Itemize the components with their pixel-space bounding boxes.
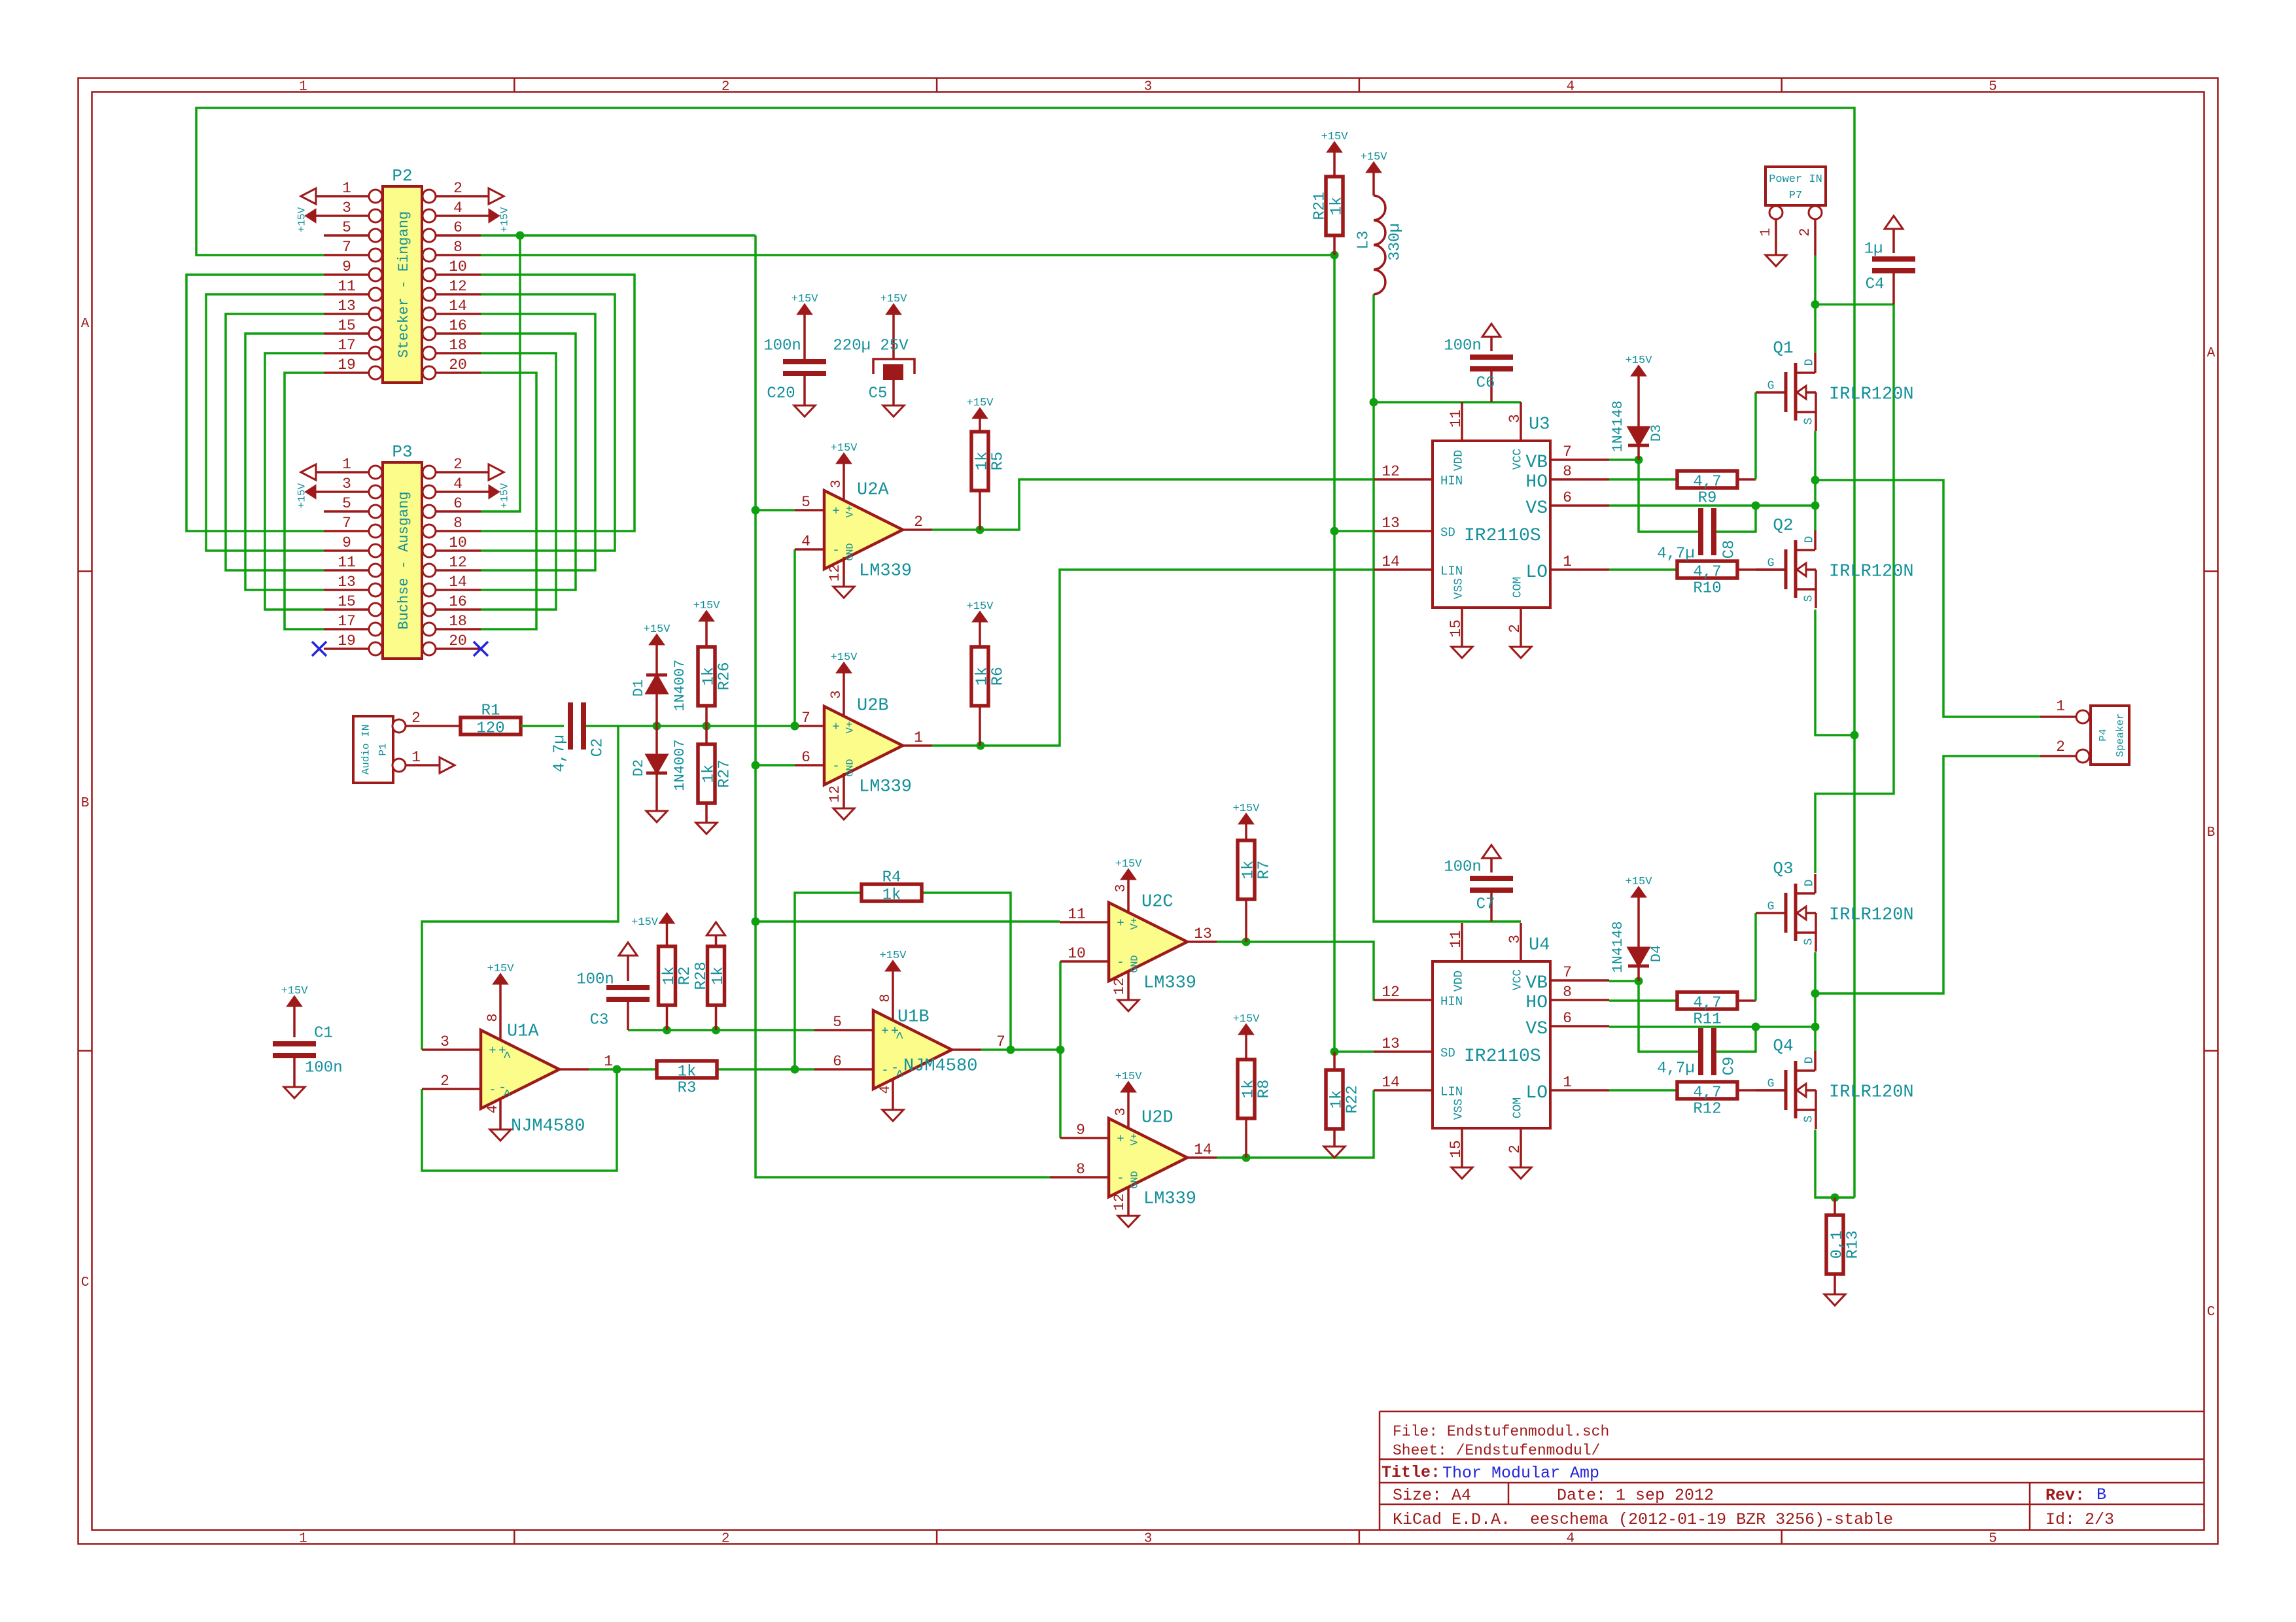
svg-text:+15V: +15V: [880, 293, 908, 305]
svg-text:Q4: Q4: [1773, 1036, 1793, 1056]
svg-text:IR2110S: IR2110S: [1464, 1046, 1541, 1067]
svg-text:12: 12: [1382, 984, 1400, 1001]
svg-text:1N4007: 1N4007: [672, 739, 688, 791]
svg-text:14: 14: [1194, 1141, 1212, 1158]
svg-text:Size: A4: Size: A4: [1393, 1486, 1471, 1505]
svg-text:12: 12: [449, 278, 467, 295]
svg-text:7: 7: [1563, 443, 1572, 460]
resistor R28 1k bias: [693, 922, 727, 1030]
output arrow P3 pin 2: [481, 464, 504, 480]
diode D2 1N4007: [631, 726, 688, 822]
wire bias rail C3/R2/R28 to U1B pin5: [628, 1026, 814, 1035]
svg-text:20: 20: [449, 632, 467, 649]
svg-text:Rev:: Rev:: [2045, 1486, 2085, 1505]
svg-text:D2: D2: [631, 759, 647, 776]
svg-text:1: 1: [342, 456, 351, 473]
svg-text:1k: 1k: [1328, 197, 1346, 216]
svg-text:C: C: [2207, 1305, 2216, 1320]
svg-text:1: 1: [411, 749, 421, 766]
svg-text:+15V: +15V: [967, 397, 994, 409]
svg-text:Title:: Title:: [1382, 1463, 1440, 1482]
svg-text:1k: 1k: [661, 967, 678, 986]
capacitor C3 100n: [576, 942, 650, 1030]
svg-text:1N4148: 1N4148: [1610, 400, 1626, 452]
wire loops P2 left pins to P3 left pins: [186, 275, 324, 629]
svg-text:VS: VS: [1525, 1019, 1548, 1039]
svg-text:R28: R28: [693, 961, 710, 990]
svg-text:HO: HO: [1525, 993, 1548, 1013]
svg-text:1: 1: [299, 79, 307, 94]
svg-text:1k: 1k: [1328, 1090, 1346, 1109]
svg-text:V+: V+: [844, 721, 856, 733]
svg-text:R13: R13: [1844, 1230, 1862, 1258]
inductor L3 330u: [1355, 151, 1404, 294]
wire U3 VS to C8 and Q1 source: [1609, 502, 1820, 532]
U1B input pins: [814, 1014, 1005, 1070]
resistor R27 1k: [696, 726, 733, 834]
svg-text:V+: V+: [844, 505, 856, 517]
diode D4 1N4148: [1610, 876, 1665, 981]
op-amp U2C LM339: [1109, 893, 1196, 993]
svg-text:R27: R27: [716, 759, 733, 787]
svg-text:6: 6: [1563, 1010, 1572, 1027]
svg-text:-: -: [489, 1083, 496, 1097]
svg-text:4: 4: [453, 475, 462, 492]
svg-text:+15V: +15V: [831, 442, 858, 455]
svg-text:1: 1: [604, 1053, 613, 1070]
svg-text:19: 19: [338, 356, 356, 373]
wire U2D output to R8 and U4 LIN: [1217, 1090, 1374, 1162]
ground U2B pin 12: [827, 773, 854, 820]
connector P3 Buchse - Ausgang: [324, 442, 481, 659]
svg-text:2: 2: [722, 79, 730, 94]
svg-text:2: 2: [440, 1073, 449, 1090]
svg-text:U2B: U2B: [857, 697, 889, 716]
svg-text:4,7µ: 4,7µ: [551, 734, 568, 772]
svg-text:14: 14: [449, 574, 467, 591]
svg-text:+15V: +15V: [487, 963, 515, 975]
svg-text:1k: 1k: [678, 1063, 697, 1080]
svg-text:IRLR120N: IRLR120N: [1829, 906, 1914, 925]
svg-text:4,7: 4,7: [1693, 473, 1721, 491]
svg-text:C2: C2: [589, 738, 606, 757]
svg-text:+15V: +15V: [499, 483, 511, 508]
svg-text:+15V: +15V: [1361, 151, 1388, 164]
svg-text:Audio IN: Audio IN: [360, 725, 372, 775]
svg-text:1: 1: [1563, 553, 1572, 570]
svg-text:VCC: VCC: [1511, 449, 1524, 470]
svg-text:11: 11: [1448, 409, 1465, 428]
svg-text:G: G: [1767, 900, 1775, 913]
svg-text:100n: 100n: [576, 971, 614, 988]
svg-text:2: 2: [2056, 738, 2065, 755]
svg-text:2: 2: [1506, 1145, 1523, 1154]
resistor R7 1k pull-up: [1233, 802, 1274, 942]
svg-text:+15V: +15V: [1321, 131, 1349, 143]
wire supply node P7 to C4, Q1 drain and Q3 drain: [1811, 256, 1894, 874]
no-connect X on P3 pin 19: [312, 642, 326, 656]
svg-text:11: 11: [1448, 930, 1465, 948]
svg-text:U4: U4: [1529, 936, 1550, 956]
wire P2 pin8 / R21 / SD net: [481, 251, 1374, 1056]
svg-text:9: 9: [342, 258, 351, 275]
svg-text:6: 6: [801, 749, 810, 766]
svg-text:16: 16: [449, 593, 467, 610]
svg-text:A: A: [81, 317, 90, 332]
svg-text:+15V: +15V: [967, 600, 994, 613]
ground U2C pin 12: [1111, 972, 1139, 1011]
svg-text:2: 2: [1797, 228, 1813, 236]
svg-text:7: 7: [996, 1033, 1005, 1050]
resistor R11 4,7: [1677, 992, 1737, 1028]
svg-text:IR2110S: IR2110S: [1464, 526, 1541, 546]
wire Q1 source / VS node to speaker P4 pin1: [1811, 431, 2041, 717]
svg-text:+15V: +15V: [791, 293, 819, 305]
svg-text:-: -: [1117, 1171, 1124, 1186]
svg-text:VS: VS: [1525, 498, 1548, 519]
svg-text:LM339: LM339: [1143, 1190, 1196, 1209]
svg-text:P4: P4: [2098, 729, 2110, 741]
wire R4 right lead to U1B output: [922, 893, 1015, 1054]
svg-text:1k: 1k: [973, 452, 991, 471]
resistor R4 1k: [861, 869, 922, 904]
IC U4 IR2110S: [1374, 923, 1609, 1179]
power flag +15V P3 pin 3: [296, 483, 324, 508]
svg-text:+15V: +15V: [296, 207, 308, 232]
svg-text:+15V: +15V: [1233, 802, 1261, 815]
connector P2 Stecker - Eingang: [324, 166, 481, 383]
svg-text:8: 8: [453, 239, 462, 256]
svg-text:U1B: U1B: [897, 1008, 930, 1027]
op-amp U2B LM339: [824, 697, 912, 797]
svg-text:SD: SD: [1440, 1046, 1455, 1061]
svg-text:9: 9: [1076, 1122, 1085, 1139]
svg-text:20: 20: [449, 356, 467, 373]
svg-text:IRLR120N: IRLR120N: [1829, 385, 1914, 405]
svg-text:14: 14: [1382, 553, 1400, 570]
svg-text:R22: R22: [1344, 1085, 1361, 1113]
power flag +15V U2B pin 3: [828, 651, 858, 717]
resistor R1 120: [461, 702, 521, 737]
svg-text:1: 1: [2056, 698, 2065, 715]
svg-text:1: 1: [1563, 1074, 1572, 1091]
U2B input pins: [795, 710, 932, 766]
connector P1 Audio IN: [353, 710, 461, 783]
wire U4 VB to D4 and C9: [1609, 977, 1701, 1052]
svg-text:4,7µ: 4,7µ: [1657, 1060, 1695, 1077]
svg-text:2: 2: [453, 456, 462, 473]
svg-text:3: 3: [828, 690, 844, 699]
svg-text:4: 4: [801, 533, 810, 550]
svg-text:V+: V+: [1129, 1133, 1141, 1145]
svg-text:LM339: LM339: [859, 778, 912, 797]
svg-text:13: 13: [1194, 925, 1212, 942]
power flag +15V U2A pin 3: [828, 442, 858, 501]
op-amp U2D LM339: [1109, 1109, 1196, 1209]
capacitor C8 4,7u bootstrap: [1657, 508, 1738, 562]
svg-text:12: 12: [1111, 1194, 1128, 1211]
wire VDD rail L3 to U3 and U4 supply pins: [1370, 294, 1522, 922]
svg-text:LIN: LIN: [1440, 1085, 1463, 1099]
svg-text:12: 12: [449, 554, 467, 571]
svg-text:+15V: +15V: [296, 483, 308, 508]
wire U1A output through R3 to U1B pin6: [589, 893, 862, 1074]
svg-text:LO: LO: [1525, 1083, 1548, 1103]
svg-text:S: S: [1802, 939, 1815, 946]
svg-text:3: 3: [1506, 935, 1523, 944]
svg-text:+15V: +15V: [499, 207, 511, 232]
svg-text:6: 6: [1563, 489, 1572, 506]
svg-text:Thor Modular Amp: Thor Modular Amp: [1442, 1464, 1599, 1483]
input arrow P3 pin 1: [301, 464, 324, 480]
svg-text:C7: C7: [1476, 895, 1495, 913]
resistor R10 4,7: [1677, 561, 1737, 597]
svg-text:D1: D1: [631, 680, 647, 697]
svg-text:7: 7: [342, 239, 351, 256]
svg-text:100n: 100n: [1444, 858, 1482, 876]
svg-text:4: 4: [453, 199, 462, 216]
svg-text:+15V: +15V: [880, 950, 907, 962]
svg-text:1k: 1k: [1240, 861, 1257, 880]
U2D input pins: [1050, 1122, 1217, 1178]
svg-text:Speaker: Speaker: [2115, 713, 2127, 757]
svg-text:C1: C1: [314, 1024, 333, 1042]
svg-text:4,7: 4,7: [1693, 1084, 1721, 1101]
svg-text:+: +: [832, 504, 839, 519]
wire P2 pin7 to top rail and power return rail to Q2/Q4 sources: [196, 108, 1859, 1198]
svg-text:1µ: 1µ: [1864, 240, 1883, 258]
capacitor C5 220u 25V polarized: [833, 293, 914, 417]
svg-text:Q3: Q3: [1773, 859, 1793, 878]
svg-text:GND: GND: [1129, 955, 1140, 973]
svg-text:S: S: [1802, 418, 1815, 425]
svg-text:3: 3: [1144, 1531, 1153, 1546]
no-connect X on P3 pin 20: [474, 642, 488, 656]
svg-text:G: G: [1767, 557, 1775, 570]
svg-text:+15V: +15V: [1626, 354, 1653, 367]
svg-text:6: 6: [453, 495, 462, 512]
svg-text:P2: P2: [392, 166, 412, 186]
svg-text:12: 12: [827, 785, 843, 802]
svg-text:Date: 1 sep 2012: Date: 1 sep 2012: [1557, 1486, 1714, 1505]
wire Q3 source to speaker P4 pin2 and Q4 drain: [1811, 756, 2041, 1052]
svg-text:8: 8: [485, 1013, 501, 1022]
svg-text:1k: 1k: [973, 667, 991, 686]
svg-text:+15V: +15V: [631, 916, 659, 929]
svg-text:Q2: Q2: [1773, 515, 1793, 535]
transistor Q1 IRLR120N: [1756, 338, 1914, 431]
wire Q2 source to power return rail: [1815, 610, 1854, 735]
svg-text:10: 10: [1068, 945, 1086, 962]
svg-text:5: 5: [833, 1014, 842, 1031]
svg-text:12: 12: [827, 564, 843, 581]
svg-text:2: 2: [914, 513, 923, 530]
svg-text:13: 13: [1382, 1035, 1400, 1052]
svg-text:U2C: U2C: [1141, 893, 1174, 912]
power flag +15V U1B pin 8: [877, 950, 907, 1020]
transistor Q2 IRLR120N: [1756, 515, 1914, 608]
wire U2A output to R5 and U3 HIN: [932, 479, 1374, 534]
svg-text:SD: SD: [1440, 526, 1455, 540]
svg-text:+15V: +15V: [693, 600, 721, 612]
resistor R3 1k: [657, 1061, 717, 1097]
svg-text:220µ 25V: 220µ 25V: [833, 337, 909, 354]
wire U2B output to R6 and U3 LIN: [932, 570, 1374, 750]
svg-text:1N4007: 1N4007: [672, 659, 688, 711]
svg-text:2: 2: [722, 1531, 730, 1546]
svg-text:D: D: [1803, 1057, 1816, 1064]
svg-text:10: 10: [449, 534, 467, 551]
resistor R2 1k bias: [631, 914, 694, 1030]
title block: [1380, 1411, 2204, 1530]
svg-text:-: -: [832, 544, 839, 558]
wire audio input node C2/D1/D2/R26/R27 to U2B pin7 and U1A pin3: [422, 549, 799, 1050]
svg-text:8: 8: [453, 515, 462, 532]
wire U3 HO through R9 to Q1 gate: [1609, 392, 1756, 479]
ground U2A pin 12: [827, 557, 854, 598]
svg-text:1k: 1k: [700, 765, 718, 784]
svg-text:P7: P7: [1789, 190, 1802, 202]
svg-text:+15V: +15V: [831, 651, 858, 664]
resistor R8 1k pull-up: [1233, 1013, 1274, 1158]
svg-text:3: 3: [1113, 1107, 1129, 1116]
capacitor C4 1u: [1864, 216, 1915, 305]
svg-text:+15V: +15V: [644, 623, 671, 636]
svg-text:+15V: +15V: [1115, 1071, 1143, 1083]
svg-text:17: 17: [338, 337, 356, 354]
svg-text:R6: R6: [989, 667, 1007, 686]
svg-text:VSS: VSS: [1452, 1099, 1465, 1120]
output arrow P2 pin 2: [481, 188, 504, 204]
svg-text:19: 19: [338, 632, 356, 649]
svg-text:P3: P3: [392, 442, 412, 462]
svg-text:VSS: VSS: [1452, 578, 1465, 599]
ground U1B pin 4: [877, 1079, 903, 1121]
svg-text:R5: R5: [989, 452, 1007, 471]
svg-text:L3: L3: [1355, 231, 1372, 250]
svg-text:B: B: [81, 796, 90, 811]
svg-text:15: 15: [338, 593, 356, 610]
svg-text:U2A: U2A: [857, 481, 889, 500]
wire U4 LO through R12 to Q4 gate: [1609, 1089, 1786, 1092]
svg-text:+: +: [1117, 1132, 1124, 1147]
svg-text:2: 2: [453, 180, 462, 197]
svg-text:S: S: [1802, 1116, 1815, 1123]
svg-text:VB: VB: [1525, 973, 1548, 993]
svg-text:R3: R3: [678, 1079, 697, 1097]
connector P4 Speaker: [2040, 698, 2129, 765]
svg-text:3: 3: [1113, 884, 1129, 892]
svg-text:G: G: [1767, 1077, 1775, 1090]
svg-text:6: 6: [453, 219, 462, 236]
op-amp U1B NJM4580: [873, 1008, 977, 1089]
capacitor C7 100n: [1444, 845, 1513, 922]
svg-text:5: 5: [801, 494, 810, 511]
svg-text:U2D: U2D: [1141, 1109, 1174, 1128]
resistor R26 1k: [693, 600, 734, 726]
svg-text:V+: V+: [1129, 917, 1141, 929]
svg-text:+15V: +15V: [281, 985, 309, 997]
IC U3 IR2110S: [1374, 402, 1609, 658]
svg-text:330µ: 330µ: [1386, 223, 1404, 261]
svg-text:D: D: [1803, 880, 1816, 887]
svg-text:-: -: [832, 759, 839, 774]
U2A input pins: [795, 494, 932, 550]
svg-text:+15V: +15V: [1115, 858, 1143, 871]
svg-text:3: 3: [1506, 414, 1523, 423]
svg-text:+15V: +15V: [1233, 1013, 1261, 1026]
svg-text:18: 18: [449, 337, 467, 354]
svg-text:8: 8: [1076, 1161, 1085, 1178]
svg-text:NJM4580: NJM4580: [903, 1057, 977, 1077]
svg-text:R1: R1: [481, 702, 500, 719]
svg-text:P1: P1: [377, 743, 389, 755]
svg-text:GND: GND: [844, 543, 856, 561]
svg-text:C3: C3: [590, 1011, 609, 1029]
svg-text:100n: 100n: [305, 1059, 343, 1077]
svg-text:D3: D3: [1648, 424, 1665, 441]
svg-text:3: 3: [342, 475, 351, 492]
power flag +15V P2 pin 3: [296, 207, 324, 232]
svg-text:+: +: [489, 1044, 496, 1058]
resistor R13 0,1 current sense: [1824, 1198, 1862, 1305]
svg-text:LO: LO: [1525, 562, 1548, 583]
svg-text:15: 15: [1448, 619, 1465, 638]
svg-text:1N4148: 1N4148: [1610, 921, 1626, 973]
svg-text:7: 7: [801, 710, 810, 727]
svg-text:3: 3: [342, 199, 351, 216]
op-amp U1A NJM4580: [481, 1022, 585, 1137]
power flag +15V U1A pin 8: [485, 963, 514, 1040]
svg-text:D: D: [1803, 359, 1816, 366]
svg-text:-: -: [881, 1063, 888, 1078]
svg-text:R10: R10: [1693, 579, 1721, 597]
output arrow P1 pin 1: [440, 757, 455, 773]
diode D3 1N4148: [1610, 354, 1665, 460]
svg-text:+15V: +15V: [1626, 876, 1653, 888]
svg-text:7: 7: [342, 515, 351, 532]
svg-text:11: 11: [338, 554, 356, 571]
svg-text:11: 11: [1068, 906, 1086, 923]
svg-text:4: 4: [485, 1105, 501, 1113]
svg-text:File: Endstufenmodul.sch: File: Endstufenmodul.sch: [1393, 1423, 1609, 1440]
svg-text:8: 8: [1563, 463, 1572, 480]
svg-text:HIN: HIN: [1440, 995, 1463, 1009]
svg-text:C8: C8: [1720, 540, 1738, 559]
svg-text:8: 8: [1563, 984, 1572, 1001]
svg-text:1: 1: [914, 729, 923, 746]
svg-text:1: 1: [299, 1531, 307, 1546]
transistor Q4 IRLR120N: [1756, 1036, 1914, 1129]
svg-text:R11: R11: [1693, 1010, 1721, 1028]
svg-text:+: +: [1117, 916, 1124, 931]
svg-text:Q1: Q1: [1773, 338, 1793, 358]
svg-text:Stecker - Eingang: Stecker - Eingang: [396, 211, 412, 358]
svg-text:R2: R2: [676, 967, 694, 986]
svg-text:5: 5: [342, 219, 351, 236]
svg-text:11: 11: [338, 278, 356, 295]
svg-text:Power IN: Power IN: [1769, 173, 1822, 186]
svg-text:6: 6: [833, 1053, 842, 1070]
svg-text:0,1: 0,1: [1828, 1230, 1846, 1258]
svg-text:R26: R26: [716, 662, 733, 690]
svg-text:12: 12: [1111, 978, 1128, 995]
svg-text:13: 13: [338, 574, 356, 591]
svg-text:C4: C4: [1866, 275, 1885, 293]
svg-text:D: D: [1803, 536, 1816, 544]
svg-text:100n: 100n: [763, 337, 801, 354]
ground U1A pin 4: [485, 1099, 511, 1141]
